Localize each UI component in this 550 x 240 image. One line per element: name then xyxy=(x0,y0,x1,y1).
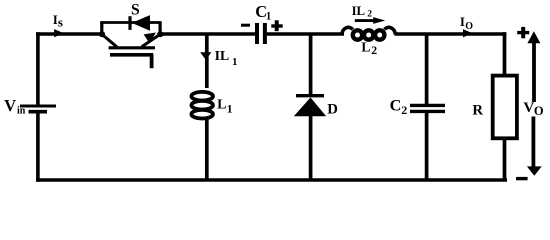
node left junction dot xyxy=(99,31,105,37)
wire top segment (L2 to right corner) xyxy=(395,32,507,36)
label Io xyxy=(460,15,473,32)
label C1 xyxy=(255,2,272,22)
wire top segment (C1 to L2) xyxy=(267,32,344,36)
svg-text:R: R xyxy=(472,103,483,119)
label Is xyxy=(53,12,63,30)
switch gate plate xyxy=(110,53,153,57)
svg-text:Is: Is xyxy=(53,12,63,30)
node D T-junction and wire down xyxy=(309,34,313,94)
polarity plus of C1 xyxy=(271,20,282,31)
wire bottom rail xyxy=(36,178,507,182)
switch arrow on right slant xyxy=(144,33,156,44)
polarity minus of C1 xyxy=(241,24,250,27)
svg-text:S: S xyxy=(131,2,140,19)
current arrow IL2 xyxy=(355,17,385,24)
svg-text:D: D xyxy=(327,101,338,117)
svg-text:IO: IO xyxy=(460,15,473,32)
diode of switch branch (cathode bar) xyxy=(128,16,131,30)
resistor R box xyxy=(493,76,517,139)
wire riser left xyxy=(100,23,103,35)
label R xyxy=(472,103,483,119)
label Vo xyxy=(523,100,544,118)
node C2 T-junction and wire down xyxy=(425,34,429,104)
polarity plus of Vo xyxy=(517,27,529,38)
wire top segment (switch to C1) xyxy=(160,32,255,36)
wire riser right xyxy=(159,23,162,35)
label IL2 xyxy=(352,4,373,20)
switch channel plate xyxy=(109,46,155,49)
label Vin xyxy=(4,96,26,117)
inductor L2 coil xyxy=(342,27,395,39)
label IL1 xyxy=(215,48,238,68)
svg-text:L2: L2 xyxy=(361,40,377,58)
diode D xyxy=(294,96,326,180)
wire right vertical (to R) xyxy=(503,32,507,76)
svg-text:C1: C1 xyxy=(255,2,272,22)
switch S (IGBT with series diode branch) xyxy=(99,15,163,68)
label D xyxy=(327,101,338,117)
svg-text:L1: L1 xyxy=(217,98,233,116)
svg-text:VO: VO xyxy=(523,100,544,118)
label C2 xyxy=(390,95,408,116)
svg-text:IL1: IL1 xyxy=(215,48,238,68)
svg-text:Vin: Vin xyxy=(4,96,26,117)
svg-text:C2: C2 xyxy=(390,95,408,116)
wire top segment left (Vin corner to switch) xyxy=(36,32,102,36)
switch right slant lead xyxy=(142,34,160,46)
switch left slant lead xyxy=(102,34,117,46)
capacitor C2 xyxy=(410,105,445,111)
switch gate lead xyxy=(150,55,154,68)
label S xyxy=(131,2,140,19)
wire R to bottom rail xyxy=(503,139,507,181)
svg-text:IL2: IL2 xyxy=(352,4,373,20)
wire C2 to bottom rail xyxy=(425,113,429,180)
inductor L1 coil xyxy=(191,92,213,119)
current arrow Io xyxy=(463,29,472,37)
label L1 xyxy=(217,98,233,116)
battery Vin xyxy=(20,106,56,112)
wire top branch xyxy=(100,21,161,24)
diode of switch branch (triangle) xyxy=(132,15,150,31)
current arrow IL1 xyxy=(200,52,211,60)
wire left vertical (Vin column) xyxy=(36,32,40,182)
label L2 xyxy=(361,40,377,58)
node L1 T-junction and wire down xyxy=(205,34,209,88)
node right junction dot xyxy=(157,31,163,37)
wire L1 to bottom rail xyxy=(205,119,209,181)
polarity minus of Vo xyxy=(516,177,528,180)
voltage arrow Vo (double headed) xyxy=(527,31,542,176)
capacitor C1 xyxy=(257,23,265,44)
current arrow Is xyxy=(54,29,64,37)
